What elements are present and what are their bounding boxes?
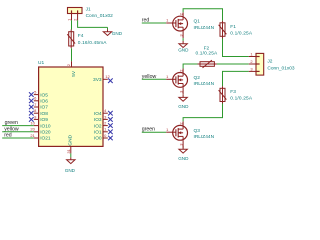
Q2 source pin 3 <box>178 87 183 94</box>
svg-text:31: 31 <box>66 148 71 153</box>
ground under Q1 <box>178 44 189 53</box>
wire net red to Q1 gate <box>142 22 166 24</box>
ground under U1 <box>65 157 76 173</box>
svg-text:1: 1 <box>166 18 169 23</box>
Q3 gate pin 1 <box>166 127 173 132</box>
svg-text:IRLIZ44N: IRLIZ44N <box>194 134 215 140</box>
svg-text:1: 1 <box>104 127 107 132</box>
svg-text:IO4: IO4 <box>94 111 102 117</box>
polyfuse F4 <box>67 30 75 49</box>
svg-text:Q3: Q3 <box>194 128 201 134</box>
svg-text:GND: GND <box>178 156 189 161</box>
wire net green to U1 IO10 <box>2 125 34 127</box>
Q2 gate pin 1 <box>166 74 173 79</box>
svg-text:GND: GND <box>178 47 189 52</box>
connector J2 <box>256 53 264 75</box>
Q2 drain pin 2 <box>178 69 183 72</box>
svg-text:2: 2 <box>250 59 253 64</box>
U1 pin 2 (IO2) no-connect <box>94 121 108 130</box>
svg-text:IO3: IO3 <box>94 117 102 123</box>
Q1 source pin 3 <box>178 31 183 38</box>
wire Q1 drain to F1 <box>183 9 222 21</box>
Q2 drain pin stub <box>182 69 184 73</box>
svg-text:5V: 5V <box>71 70 77 77</box>
svg-text:3: 3 <box>250 67 253 72</box>
ground near J1 <box>103 27 122 36</box>
U1 pin 10 (IO10) <box>30 121 51 130</box>
svg-text:1: 1 <box>166 74 169 79</box>
wire U1 GND pin to ground <box>70 153 72 157</box>
wire F2 to J2 pin 2 <box>217 63 249 65</box>
svg-text:IO0: IO0 <box>94 136 102 142</box>
svg-text:IO6: IO6 <box>40 99 48 105</box>
svg-text:21: 21 <box>30 133 35 138</box>
U1 pin 9 (IO9) no-connect <box>34 114 48 123</box>
polyfuse F3 <box>219 86 227 103</box>
wire net yellow to U1 IO20 <box>2 131 34 133</box>
svg-text:IO8: IO8 <box>40 111 48 117</box>
Q3 source pin 3 <box>178 140 183 147</box>
wire Q3 source to ground <box>182 146 184 149</box>
U1 pin 20 (IO20) <box>30 127 51 136</box>
J1 pin 1 <box>67 14 72 21</box>
wire F3 to Q3 drain <box>183 104 222 122</box>
U1 pin 6 (IO6) no-connect <box>34 96 48 105</box>
polyfuse F1 <box>219 21 227 39</box>
ground under Q2 <box>178 97 189 109</box>
svg-text:2: 2 <box>73 18 78 21</box>
transistor Q1 IRLIZ44N <box>173 16 188 31</box>
Q3 drain pin stub <box>182 121 184 125</box>
wire F4 to U1 5V pin <box>71 48 73 61</box>
svg-text:0.16/0.45mA: 0.16/0.45mA <box>78 40 108 46</box>
U1 pin 5 (IO5) no-connect <box>34 90 48 99</box>
svg-text:IO2: IO2 <box>94 123 102 129</box>
svg-text:F1: F1 <box>230 24 236 30</box>
U1 pin 3 (IO3) no-connect <box>94 114 108 123</box>
Q1 gate pin 1 <box>166 18 173 23</box>
wire J1 pin1 to F4 <box>71 20 73 29</box>
connector J1 <box>68 8 83 14</box>
wire F1 to J2 pin 1 <box>223 39 249 57</box>
wire Q2 drain to F2 <box>183 64 197 69</box>
svg-text:IO7: IO7 <box>40 105 48 111</box>
wire net green to Q3 gate <box>142 131 166 133</box>
svg-text:10: 10 <box>30 121 35 126</box>
U1 pin 0 (IO0) no-connect <box>94 133 108 142</box>
wire J1 pin2 to GND <box>78 20 108 27</box>
svg-text:5: 5 <box>34 90 37 95</box>
svg-text:Q1: Q1 <box>194 19 201 25</box>
IC U1 body <box>39 67 103 146</box>
svg-text:IO10: IO10 <box>40 123 51 129</box>
ground under Q3 <box>178 149 189 161</box>
svg-text:12: 12 <box>105 74 110 79</box>
svg-text:IO9: IO9 <box>40 117 48 123</box>
U1 pin 2 (5V) <box>66 61 77 77</box>
transistor Q3 IRLIZ44N <box>173 125 188 140</box>
svg-text:U1: U1 <box>38 60 44 66</box>
svg-text:GND: GND <box>68 134 74 145</box>
Q3 drain pin 2 <box>178 122 183 125</box>
svg-text:F3: F3 <box>230 89 236 95</box>
J1 pin 2 <box>73 14 78 21</box>
svg-text:2: 2 <box>66 63 71 66</box>
svg-text:J1: J1 <box>86 6 91 12</box>
svg-text:Q2: Q2 <box>194 75 201 81</box>
wire J2 pin 3 to F3 <box>223 71 249 86</box>
svg-text:GND: GND <box>178 104 189 109</box>
svg-text:4: 4 <box>104 108 107 113</box>
svg-text:3: 3 <box>104 114 107 119</box>
U1 pin 31 (GND) <box>66 134 74 153</box>
svg-text:1: 1 <box>250 52 253 57</box>
transistor Q2 IRLIZ44N <box>173 73 188 88</box>
svg-text:9: 9 <box>34 114 37 119</box>
svg-text:GND: GND <box>65 168 76 173</box>
wire net red to U1 IO21 <box>2 137 34 139</box>
svg-text:Conn_01x02: Conn_01x02 <box>86 13 114 19</box>
wire net yellow to Q2 gate <box>142 78 166 80</box>
polyfuse F2 <box>198 60 217 68</box>
svg-text:IO1: IO1 <box>94 130 102 136</box>
svg-text:20: 20 <box>30 127 35 132</box>
svg-text:0: 0 <box>104 133 107 138</box>
Q1 drain pin stub <box>182 12 184 16</box>
svg-text:IO21: IO21 <box>40 136 51 142</box>
U1 pin 4 (IO4) no-connect <box>94 108 108 117</box>
J2 pin 3 <box>249 67 256 72</box>
U1 pin 7 (IO7) no-connect <box>34 102 48 111</box>
svg-text:F2: F2 <box>204 45 210 51</box>
J2 pin 2 <box>249 59 256 64</box>
wire Q1 source to ground <box>182 38 184 41</box>
svg-text:IRLIZ44N: IRLIZ44N <box>194 81 215 87</box>
wire Q2 source to ground <box>182 93 184 95</box>
svg-text:GND: GND <box>112 31 123 36</box>
svg-text:IRLIZ44N: IRLIZ44N <box>194 25 215 31</box>
svg-text:F4: F4 <box>78 33 84 39</box>
U1 pin 8 (IO8) no-connect <box>34 108 48 117</box>
svg-text:1: 1 <box>166 127 169 132</box>
svg-text:1: 1 <box>67 18 72 21</box>
svg-text:2: 2 <box>104 121 107 126</box>
svg-text:0.1/0.25A: 0.1/0.25A <box>230 96 253 102</box>
U1 pin 1 (IO1) no-connect <box>94 127 108 136</box>
svg-text:IO20: IO20 <box>40 130 51 136</box>
Q1 drain pin 2 <box>178 12 183 15</box>
svg-text:3V3: 3V3 <box>93 77 102 83</box>
svg-text:Conn_01x03: Conn_01x03 <box>267 65 295 71</box>
U1 pin 12 (3V3) no-connect <box>93 74 110 83</box>
J2 pin 1 <box>249 52 256 57</box>
svg-text:6: 6 <box>34 96 37 101</box>
svg-text:0.1/0.25A: 0.1/0.25A <box>196 51 219 57</box>
svg-text:7: 7 <box>34 102 37 107</box>
svg-text:0.1/0.25A: 0.1/0.25A <box>230 30 253 36</box>
U1 pin 21 (IO21) <box>30 133 51 142</box>
svg-text:J2: J2 <box>267 58 272 64</box>
svg-text:IO5: IO5 <box>40 92 48 98</box>
svg-text:8: 8 <box>34 108 37 113</box>
